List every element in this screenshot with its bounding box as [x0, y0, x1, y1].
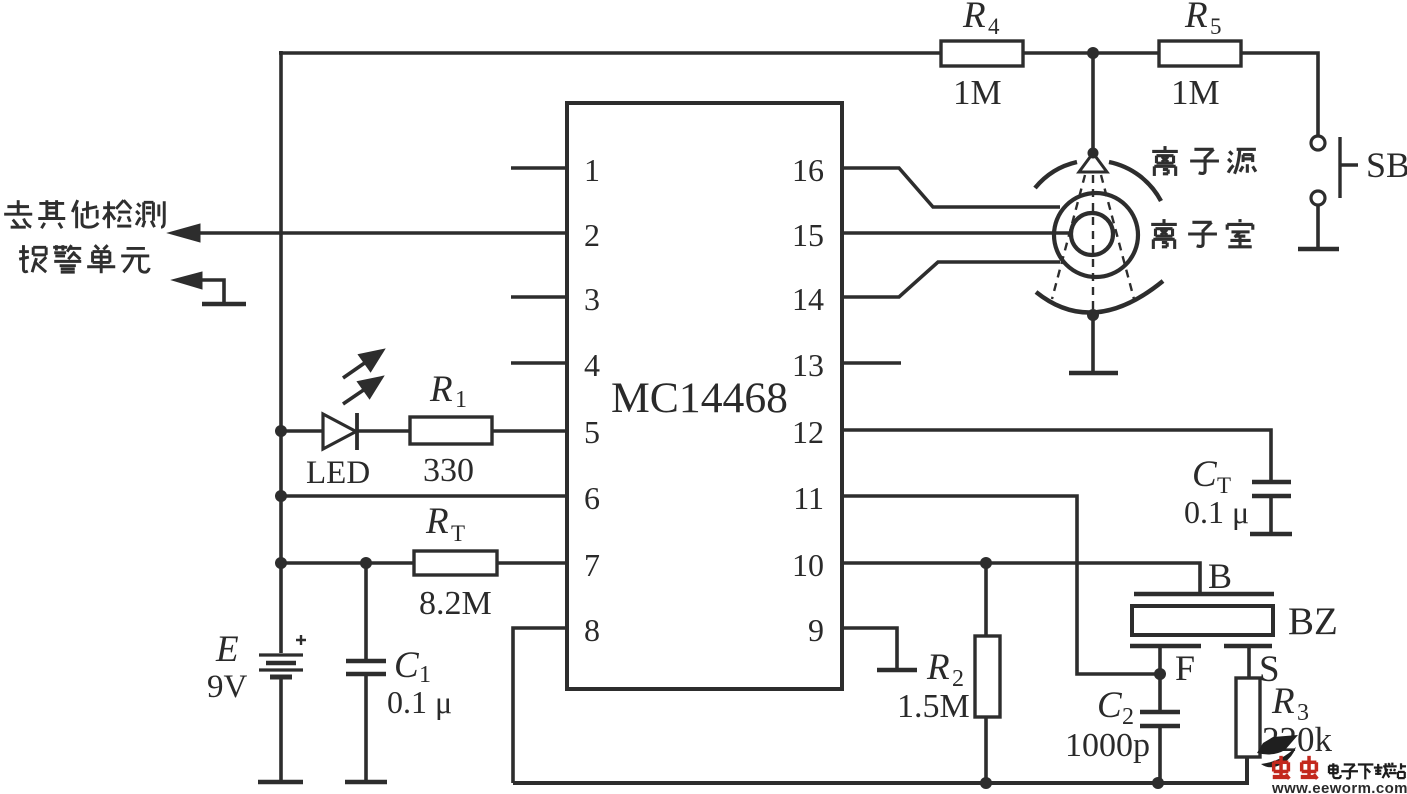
wire: R2 bottom lead to rail	[984, 717, 988, 783]
capacitor C1 plates	[346, 661, 386, 674]
wire: buzzer S lead down to R3	[1247, 647, 1251, 678]
svg-text:1: 1	[584, 152, 600, 188]
svg-text:R: R	[1184, 0, 1208, 36]
CT lower stub and terminator	[1269, 498, 1273, 533]
svg-text:330: 330	[423, 452, 474, 489]
svg-text:9: 9	[808, 612, 824, 648]
svg-text:1M: 1M	[953, 73, 1002, 112]
node: rail at pin6	[275, 490, 287, 502]
wire: pin 6 line from rail	[281, 494, 567, 498]
wire: R2 branch upper lead	[984, 563, 988, 636]
resistor R3 body	[1236, 678, 1260, 757]
svg-text:15: 15	[792, 217, 824, 253]
svg-text:T: T	[451, 521, 465, 546]
wire: C2 bottom lead to rail	[1158, 727, 1162, 783]
node: ion source top	[1088, 148, 1099, 159]
wire: pin 11 over to F node	[842, 496, 1155, 674]
svg-text:1000p: 1000p	[1065, 727, 1150, 764]
wire: C1 bottom lead	[364, 675, 368, 781]
node: rail at C2	[1152, 777, 1164, 789]
IC U1 MC14468 body	[567, 103, 842, 689]
ion chamber ground bar	[1069, 371, 1118, 376]
svg-text:C: C	[1192, 454, 1218, 495]
node: F	[1154, 668, 1166, 680]
LED D1 triangle	[323, 414, 356, 449]
wire: left vertical supply rail from top corner down to battery	[279, 51, 283, 653]
node: rail at pin7	[275, 557, 287, 569]
wire: C1 branch top lead	[364, 563, 368, 660]
svg-text:C: C	[1097, 685, 1123, 726]
wire: junction down to ion source	[1091, 53, 1095, 153]
C1 bottom terminator bar	[345, 780, 387, 785]
label text: 去其他检测 (to other detection)	[4, 200, 164, 228]
wire: RT to pin 7	[497, 561, 567, 565]
svg-text:R: R	[425, 501, 449, 542]
ion chamber outer electrode circle	[1054, 193, 1138, 277]
svg-text:B: B	[1208, 556, 1232, 596]
node: rail at R2	[980, 777, 992, 789]
buzzer BZ feedback electrode bar F	[1130, 644, 1201, 648]
ion chamber bottom arc	[1036, 281, 1163, 313]
svg-text:5: 5	[584, 414, 600, 450]
wire: pin 4 stub	[511, 361, 567, 365]
wire: pin 5 line rail to LED	[281, 429, 323, 433]
wire: pin 8 stub left and down to bottom rail	[513, 628, 567, 783]
ion chamber top arc left	[1035, 162, 1077, 188]
capacitor CT plates	[1252, 482, 1291, 496]
wire: R1 to pin 5	[492, 429, 567, 433]
svg-text:4: 4	[584, 347, 600, 383]
logo swoosh	[1257, 735, 1298, 754]
switch SB top contact	[1311, 136, 1325, 150]
svg-text:14: 14	[792, 281, 824, 317]
wire: buzzer F lead down through C2	[1158, 647, 1162, 711]
ion chamber dashed radiation lines	[1052, 175, 1134, 309]
resistor R1 body	[410, 417, 492, 444]
svg-text:R: R	[429, 369, 453, 410]
interconnect arrow with hook terminator	[172, 272, 246, 304]
wire: between R4 and R5 through junction	[1023, 51, 1159, 55]
buzzer BZ main electrode bar S	[1224, 644, 1272, 648]
svg-text:MC14468: MC14468	[611, 375, 788, 422]
svg-text:BZ: BZ	[1288, 600, 1338, 643]
pin 9 terminator bar	[877, 668, 917, 673]
node: R4/R5 junction	[1087, 47, 1099, 59]
wire: R5 to SB corner and down to switch top contact	[1241, 53, 1318, 136]
svg-text:R: R	[926, 647, 950, 688]
wire: pin 2 line to left arrow (to other units)	[178, 231, 568, 235]
wire: pin 14 to ion chamber lower electrode	[842, 262, 1060, 297]
svg-text:8: 8	[584, 612, 600, 648]
switch SB ground bar	[1298, 247, 1339, 252]
resistor R5 body	[1159, 41, 1241, 66]
wire: bottom ground rail, ends rising to R3 bottom	[513, 756, 1247, 783]
battery bottom terminator bar	[258, 780, 303, 785]
svg-text:R: R	[1271, 681, 1295, 722]
svg-text:0.1 μ: 0.1 μ	[1184, 494, 1249, 530]
wire: pin 13 stub	[842, 361, 901, 365]
wire: ion chamber bottom to ground	[1091, 315, 1095, 371]
svg-text:E: E	[215, 629, 239, 670]
svg-text:R: R	[962, 0, 986, 36]
switch SB actuator bar	[1340, 137, 1358, 198]
svg-text:8.2M: 8.2M	[419, 585, 492, 622]
LED D1 cathode bar	[355, 413, 359, 450]
battery E cells	[259, 655, 303, 677]
capacitor C2 plates	[1140, 712, 1180, 726]
svg-text:13: 13	[792, 347, 824, 383]
svg-text:9V: 9V	[207, 669, 248, 705]
switch SB lower lead	[1316, 204, 1320, 247]
TEXTS	[584, 152, 824, 648]
resistor RT body	[414, 551, 497, 575]
logo text 电子下载站	[1329, 763, 1406, 780]
svg-text:3: 3	[584, 281, 600, 317]
svg-text:12: 12	[792, 414, 824, 450]
svg-text:4: 4	[988, 14, 1000, 39]
LED light arrow 2	[343, 378, 381, 404]
svg-text:6: 6	[584, 480, 600, 516]
logo text 虫虫 (red)	[1273, 756, 1318, 779]
arrowhead: to other alarm units (pin 2)	[168, 224, 200, 242]
buzzer BZ top electrode bar B	[1134, 592, 1274, 596]
svg-text:10: 10	[792, 547, 824, 583]
label text: 离子室 (ion chamber)	[1151, 219, 1253, 249]
svg-text:2: 2	[584, 217, 600, 253]
svg-text:C: C	[394, 645, 420, 686]
switch SB bottom contact	[1311, 191, 1325, 205]
battery plus sign	[296, 635, 306, 645]
LED light arrow 1	[343, 351, 382, 378]
svg-text:5: 5	[1210, 14, 1222, 39]
label text: 报警单元 (alarm units)	[19, 245, 149, 273]
svg-text:16: 16	[792, 152, 824, 188]
svg-text:0.1 μ: 0.1 μ	[387, 684, 452, 720]
node: R2 tap on pin10	[980, 557, 992, 569]
ion chamber top arc right	[1109, 162, 1161, 201]
buzzer BZ piezo disc body	[1132, 606, 1273, 635]
node: ion chamber bottom	[1087, 309, 1099, 321]
node: rail at pin5	[275, 425, 287, 437]
ion chamber inner electrode circle	[1071, 213, 1113, 255]
label text: 离子源 (ion source)	[1152, 146, 1256, 176]
svg-text:SB: SB	[1366, 145, 1407, 185]
wire: pin 15 to ion chamber center	[842, 231, 1072, 235]
wire: pin 3 stub	[511, 295, 567, 299]
svg-text:1: 1	[455, 387, 467, 413]
wire: LED cathode to R1	[357, 429, 410, 433]
wire: top horizontal supply from rail corner to R4	[279, 51, 941, 55]
svg-text:1.5M: 1.5M	[897, 688, 970, 725]
svg-text:11: 11	[793, 480, 824, 516]
wire: pin 9 stub down to terminator	[842, 628, 897, 668]
resistor R2 body	[975, 636, 1000, 717]
svg-text:F: F	[1175, 648, 1195, 688]
svg-text:LED: LED	[306, 455, 370, 491]
resistor R4 body	[941, 41, 1023, 66]
svg-text:www.eeworm.com: www.eeworm.com	[1271, 780, 1407, 794]
wire: pin 16 to ion chamber top electrode	[842, 168, 1060, 207]
svg-text:1M: 1M	[1171, 73, 1220, 112]
wire: pin 10 over to buzzer B electrode	[842, 563, 1200, 592]
wire: pin 7 line rail to RT	[281, 561, 414, 565]
wire: pin 12 to CT	[842, 430, 1271, 480]
svg-text:7: 7	[584, 547, 600, 583]
ion source triangle	[1079, 153, 1107, 172]
node: C1 tap	[360, 557, 372, 569]
wire: battery bottom lead	[279, 677, 283, 781]
wire: pin 1 stub	[511, 166, 567, 170]
